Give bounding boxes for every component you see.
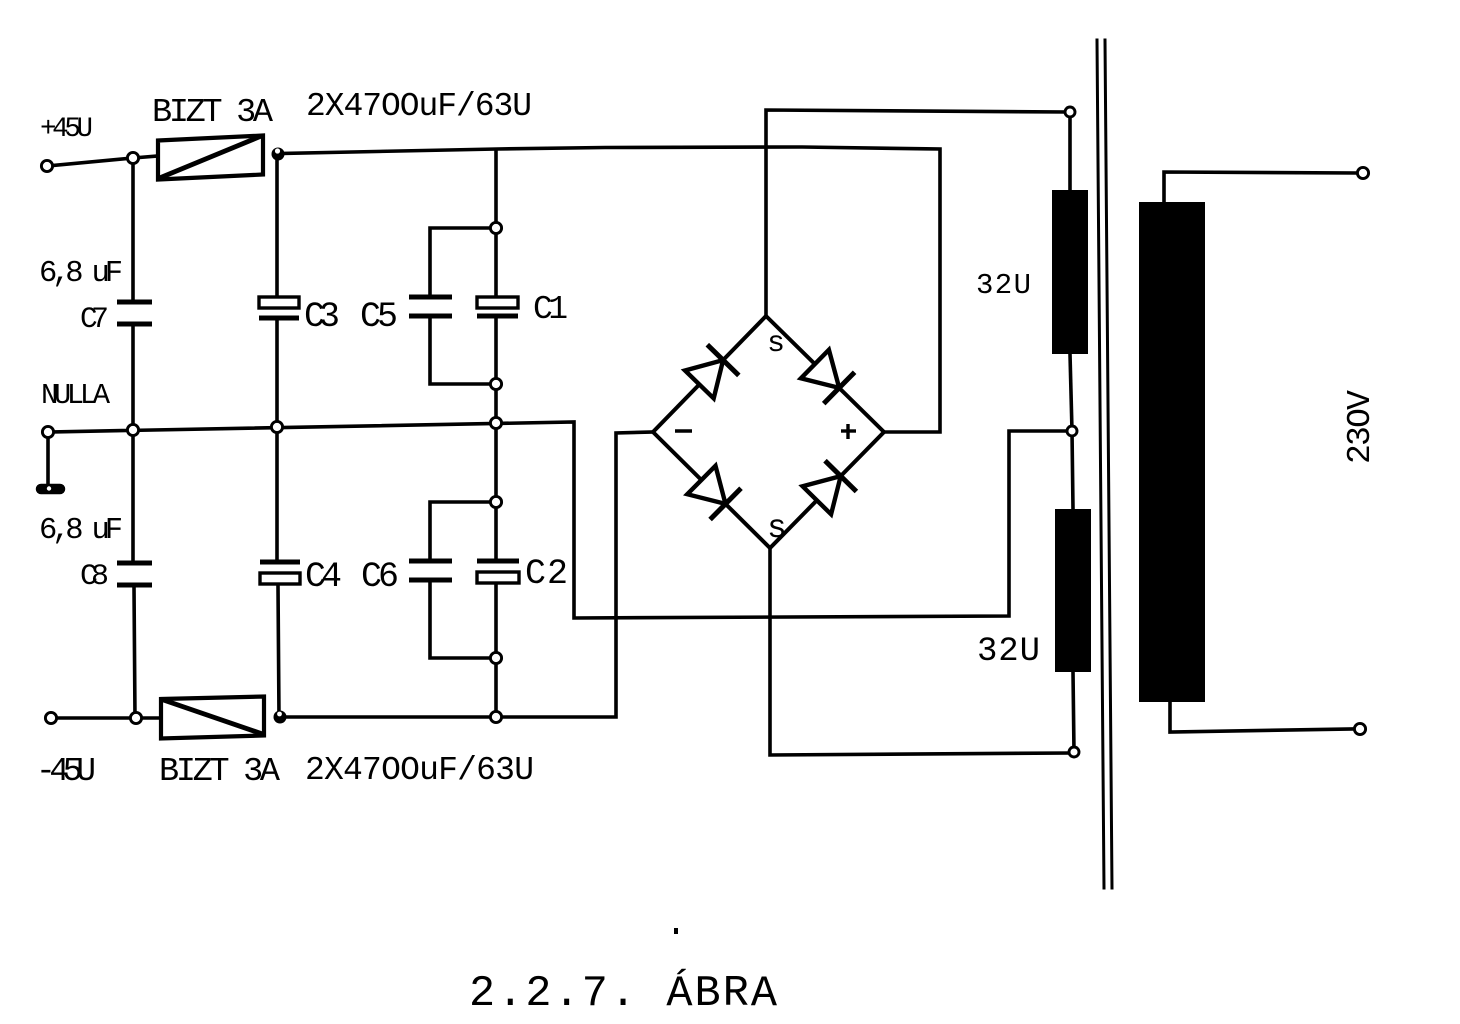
svg-text:2X47OOuF/63U: 2X47OOuF/63U [305,752,534,789]
svg-text:C4: C4 [305,557,342,597]
svg-text:2.2.7. ÁBRA: 2.2.7. ÁBRA [469,968,778,1019]
svg-text:BIZT 3A: BIZT 3A [159,753,281,791]
svg-text:NULLA: NULLA [41,379,111,412]
svg-text:BIZT 3A: BIZT 3A [152,94,274,132]
svg-text:2X47OOuF/63U: 2X47OOuF/63U [306,88,532,125]
svg-text:s: s [767,510,787,547]
svg-text:23OV: 23OV [1342,390,1379,464]
svg-text:6,8 uF: 6,8 uF [39,257,123,291]
svg-text:32U: 32U [976,269,1031,302]
svg-text:+45U: +45U [40,114,93,145]
svg-text:C3: C3 [304,297,340,337]
svg-text:6,8 uF: 6,8 uF [39,514,123,548]
svg-text:C2: C2 [525,554,568,594]
svg-text:32U: 32U [977,633,1040,671]
svg-text:C7: C7 [80,302,109,336]
svg-text:C8: C8 [80,560,109,594]
svg-text:C1: C1 [533,291,568,328]
svg-text:C6: C6 [361,557,399,597]
svg-text:s: s [767,327,785,361]
svg-text:-45U: -45U [36,753,96,790]
svg-text:C5: C5 [360,297,398,337]
